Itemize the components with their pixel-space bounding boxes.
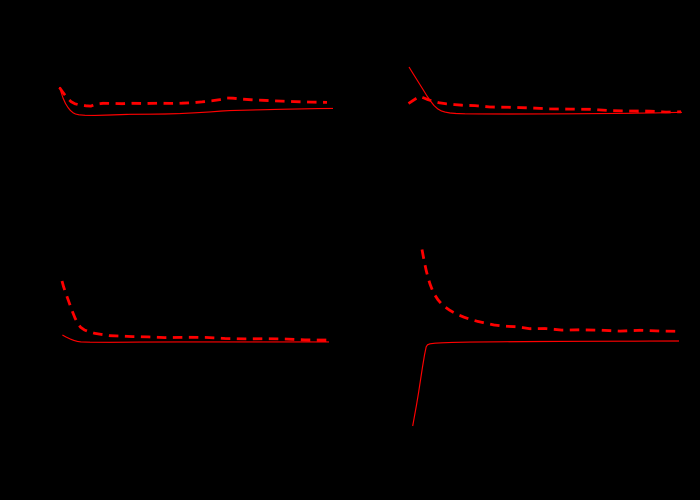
top-right subplot: solid red curve (train loss) [409, 67, 682, 114]
top-left subplot: solid red curve (train loss) [60, 87, 334, 115]
bottom-left subplot: dashed red curve (validation loss) [62, 281, 328, 340]
bottom-left subplot: solid red curve (train loss) [62, 335, 329, 342]
bottom-right subplot: dashed red curve (validation loss) [422, 250, 679, 332]
top-left subplot: dashed red curve (validation loss) [60, 88, 328, 107]
bottom-right subplot: solid red curve (train loss) [413, 341, 679, 426]
top-right subplot: dashed red curve (validation loss) [409, 97, 682, 113]
